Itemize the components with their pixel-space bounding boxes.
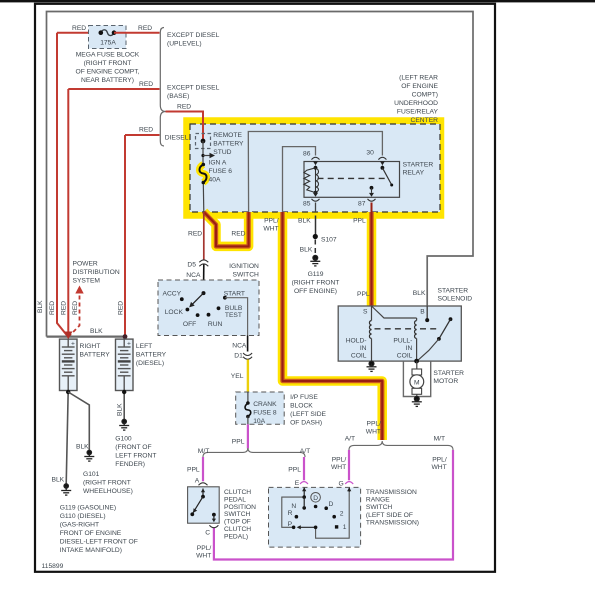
wire PPL crank fuse to brace (247, 424, 249, 448)
wire START to box exit (225, 298, 248, 336)
svg-text:S107: S107 (321, 236, 337, 243)
wire BLK D5 into ignition switch (203, 265, 205, 294)
svg-text:_: _ (70, 385, 75, 392)
svg-text:DIESEL: DIESEL (165, 135, 189, 142)
svg-text:(FRONT OF: (FRONT OF (115, 444, 151, 451)
relay dashed actuator line (318, 177, 387, 179)
wire internal re-entry to relay 30 (248, 132, 382, 213)
svg-text:RELAY: RELAY (403, 169, 425, 176)
relay switch (381, 166, 383, 168)
outer frame (35, 4, 495, 572)
node left battery positive (123, 334, 128, 339)
svg-text:86: 86 (303, 151, 311, 158)
svg-text:BLK: BLK (298, 218, 311, 225)
wire internal PPL/WHT feed to relay 86 (283, 147, 316, 212)
pin 87 connector (369, 193, 374, 197)
svg-text:MEGA FUSE BLOCK: MEGA FUSE BLOCK (76, 52, 140, 59)
svg-text:RED: RED (231, 231, 245, 238)
svg-text:REMOTE: REMOTE (213, 132, 242, 139)
svg-text:D5: D5 (187, 262, 196, 269)
connector clutch C (209, 525, 218, 528)
svg-text:WHT: WHT (331, 464, 346, 471)
svg-text:CENTER: CENTER (411, 117, 439, 124)
wire BLK B terminal (426, 306, 428, 320)
svg-text:M/T: M/T (198, 448, 210, 455)
svg-text:E: E (295, 480, 300, 487)
svg-text:G119: G119 (308, 271, 324, 278)
svg-text:BLK: BLK (117, 403, 124, 416)
inductor arcs (316, 169, 319, 192)
svg-text:BATTERY: BATTERY (136, 351, 167, 358)
svg-text:D: D (313, 495, 318, 502)
svg-text:SOLENOID: SOLENOID (438, 296, 473, 303)
svg-text:115899: 115899 (42, 563, 64, 570)
svg-text:PULL-: PULL- (393, 338, 412, 345)
wire BLK battery positive bus (47, 336, 126, 338)
svg-text:G: G (339, 480, 344, 487)
wire YEL D1 to crank fuse (247, 360, 249, 393)
svg-text:(GAS-RIGHT: (GAS-RIGHT (60, 522, 99, 529)
svg-text:CLUTCH: CLUTCH (224, 489, 251, 496)
svg-text:FENDER): FENDER) (115, 461, 145, 468)
svg-text:DISTRIBUTION: DISTRIBUTION (73, 269, 120, 276)
svg-text:(RIGHT FRONT: (RIGHT FRONT (292, 280, 340, 287)
svg-text:RANGE: RANGE (366, 497, 390, 504)
svg-text:(RIGHT FRONT: (RIGHT FRONT (84, 60, 132, 67)
svg-text:HOLD-: HOLD- (346, 338, 367, 345)
wire 87 stub (371, 203, 373, 213)
svg-text:(LEFT SIDE OF: (LEFT SIDE OF (366, 512, 413, 519)
ground starter motor (412, 396, 422, 406)
svg-text:IN: IN (406, 345, 413, 352)
brace grouping three feeds (160, 28, 165, 147)
ground G101 (84, 450, 94, 461)
svg-text:(DIESEL): (DIESEL) (136, 360, 164, 367)
svg-text:C: C (205, 530, 210, 537)
transmission range switch box (269, 487, 361, 547)
wire BLK right battery negative to G101 (68, 392, 89, 451)
circled D indicator (311, 493, 321, 503)
starter relay box (304, 162, 400, 198)
svg-text:BLK: BLK (76, 444, 89, 451)
svg-text:BLK: BLK (413, 290, 426, 297)
connector clutch A (199, 483, 208, 486)
wire RED dashed power-distribution arrow (68, 292, 79, 337)
node solenoid output (414, 359, 419, 364)
svg-text:_: _ (126, 385, 131, 392)
ignition switch box (158, 280, 259, 336)
svg-text:STUD: STUD (213, 149, 231, 156)
highlighted PPL/WHT wire to brace (283, 212, 383, 440)
svg-text:RED: RED (49, 301, 56, 315)
wire RED base horizontal to brace (68, 88, 159, 90)
svg-text:175A: 175A (100, 40, 116, 47)
wire BLK battery-to-solenoid frame loop (47, 12, 474, 337)
pull-in coil (416, 318, 418, 321)
pin 30 connector (378, 157, 386, 159)
svg-text:NEAR BATTERY): NEAR BATTERY) (81, 77, 134, 84)
svg-text:G119 (GASOLINE): G119 (GASOLINE) (60, 505, 116, 512)
svg-text:B: B (420, 308, 425, 315)
svg-text:SYSTEM: SYSTEM (73, 277, 101, 284)
svg-text:BLK: BLK (90, 328, 103, 335)
wire PPL/WHT to trans switch G (348, 450, 350, 480)
svg-text:PPL: PPL (187, 467, 200, 474)
wire PPL/WHT MT loop right side (214, 450, 453, 560)
svg-text:OF ENGINE COMPT,: OF ENGINE COMPT, (76, 69, 140, 76)
svg-text:+: + (127, 340, 131, 347)
svg-text:FUSE 8: FUSE 8 (253, 410, 277, 417)
svg-text:10A: 10A (253, 418, 265, 425)
svg-text:UNDERHOOD: UNDERHOOD (394, 100, 438, 107)
svg-text:STARTER: STARTER (433, 370, 464, 377)
wire 85 to below box (315, 203, 317, 213)
svg-text:POSITION: POSITION (224, 504, 256, 511)
wire RED diesel horizontal to brace (125, 134, 160, 136)
wire RED diesel feed vertical (124, 135, 126, 337)
wire BLK left battery negative to G100 (123, 391, 125, 420)
svg-text:BLK: BLK (300, 246, 313, 253)
wire RED mega fuse output to brace (114, 32, 160, 34)
svg-text:PPL/: PPL/ (367, 421, 382, 428)
svg-text:G110 (DIESEL): G110 (DIESEL) (60, 513, 106, 520)
svg-text:87: 87 (358, 200, 366, 207)
svg-text:WHT: WHT (366, 429, 381, 436)
svg-text:A/T: A/T (300, 448, 310, 455)
svg-text:IGN A: IGN A (209, 159, 227, 166)
wire stud to fuse with branch arrow (202, 141, 204, 164)
wire PPL to trans switch E (303, 457, 305, 480)
svg-text:CRANK: CRANK (253, 401, 277, 408)
svg-text:IN: IN (360, 345, 367, 352)
svg-text:OFF: OFF (183, 321, 196, 328)
svg-text:RED: RED (188, 231, 202, 238)
solenoid S internal split (372, 306, 417, 318)
node S107 (313, 234, 318, 239)
wire RED top horizontal to mega fuse (57, 32, 101, 34)
wire PPL to clutch switch A (202, 457, 204, 481)
wire BLK dashed to ground (314, 240, 316, 256)
svg-text:1: 1 (343, 524, 347, 531)
remote battery stud (196, 134, 211, 149)
fuse IGN A FUSE 6 40A highlighted (199, 165, 206, 183)
connector D1 (243, 353, 252, 356)
relay coil with parallel resistor (315, 166, 317, 194)
svg-text:OF DASH): OF DASH) (290, 420, 322, 427)
svg-text:IGNITION: IGNITION (229, 263, 259, 270)
svg-text:30: 30 (366, 150, 374, 157)
IP fuse block box (236, 392, 285, 424)
svg-text:PEDAL: PEDAL (224, 496, 246, 503)
svg-text:SWITCH: SWITCH (224, 511, 251, 518)
svg-text:DIESEL-LEFT FRONT OF: DIESEL-LEFT FRONT OF (60, 539, 138, 546)
svg-text:WHT: WHT (196, 552, 211, 559)
wire RED thin to ignition switch D5 (203, 212, 205, 260)
connector trans E (300, 482, 308, 484)
svg-text:(LEFT SIDE: (LEFT SIDE (290, 411, 326, 418)
svg-text:RED: RED (118, 301, 125, 315)
brace M/T A/T lower left (203, 448, 305, 457)
svg-text:EXCEPT DIESEL: EXCEPT DIESEL (167, 32, 220, 39)
svg-text:PPL: PPL (288, 466, 301, 473)
svg-text:RED: RED (138, 25, 152, 32)
svg-text:PPL/: PPL/ (197, 545, 212, 552)
svg-text:I/P FUSE: I/P FUSE (290, 394, 318, 401)
wire RED into remote battery stud (202, 112, 204, 140)
svg-text:(LEFT REAR: (LEFT REAR (399, 74, 438, 81)
wire RED mega fuse feed vertical (57, 33, 68, 337)
svg-text:WHT: WHT (431, 464, 446, 471)
svg-text:+: + (71, 340, 75, 347)
starter motor enclosure (403, 361, 430, 396)
trans switch contacts (302, 495, 306, 499)
svg-text:RIGHT: RIGHT (80, 343, 101, 350)
svg-text:D1: D1 (234, 352, 243, 359)
wire BLK 85 to S107 (315, 216, 317, 236)
svg-text:SWITCH: SWITCH (366, 504, 393, 511)
svg-text:WHEELHOUSE): WHEELHOUSE) (83, 488, 133, 495)
svg-text:LOCK: LOCK (165, 309, 184, 316)
svg-text:S: S (363, 308, 368, 315)
svg-text:R: R (288, 510, 293, 517)
svg-text:STARTER: STARTER (403, 161, 434, 168)
svg-text:INTAKE MANIFOLD): INTAKE MANIFOLD) (60, 547, 122, 554)
svg-text:PEDAL): PEDAL) (224, 533, 248, 540)
solenoid switch arm (449, 317, 453, 321)
connector trans G (345, 482, 353, 484)
ground G100 (119, 419, 129, 430)
trans switch internal frame (282, 497, 304, 527)
svg-text:RED: RED (139, 81, 153, 88)
svg-text:M/T: M/T (434, 436, 446, 443)
svg-text:EXCEPT DIESEL: EXCEPT DIESEL (167, 85, 220, 92)
svg-text:FUSE/RELAY: FUSE/RELAY (397, 108, 439, 115)
svg-text:COIL: COIL (397, 353, 413, 360)
connector D5 (199, 260, 208, 262)
fuse 175A element (101, 30, 114, 36)
svg-text:RED: RED (139, 127, 153, 134)
wire RED brace output to remote battery stud (166, 112, 204, 140)
trans switch wiper (299, 526, 316, 528)
starter solenoid box (338, 306, 461, 361)
hold-in coil (371, 306, 373, 321)
svg-text:BULB: BULB (225, 305, 243, 312)
node right battery positive (64, 332, 72, 340)
clutch pedal position switch box (188, 487, 220, 523)
fuse CRANK FUSE 8 10A (247, 392, 249, 403)
svg-text:COIL: COIL (351, 353, 367, 360)
svg-text:RUN: RUN (208, 321, 223, 328)
wire RED base feed vertical (67, 89, 69, 337)
svg-text:RED: RED (72, 25, 86, 32)
right battery (60, 339, 78, 390)
clutch switch internals (202, 489, 204, 497)
svg-text:BATTERY: BATTERY (213, 141, 244, 148)
svg-text:BATTERY: BATTERY (80, 351, 111, 358)
svg-text:WHT: WHT (263, 226, 278, 233)
starter motor (416, 361, 418, 369)
underhood fuse/relay center highlight (187, 121, 441, 215)
svg-text:A/T: A/T (345, 436, 355, 443)
svg-text:NCA: NCA (186, 272, 201, 279)
svg-text:STARTER: STARTER (438, 288, 469, 295)
svg-text:(BASE): (BASE) (167, 93, 189, 100)
svg-text:MOTOR: MOTOR (433, 378, 458, 385)
ignition switch contacts (202, 291, 206, 295)
svg-text:TEST: TEST (225, 312, 242, 319)
ground G119 engine (310, 255, 320, 266)
svg-text:40A: 40A (209, 176, 221, 183)
ground G119/G110 battery (61, 484, 71, 495)
pin 85 connector (313, 193, 318, 197)
highlighted RED jog wire below fuse block (204, 212, 249, 246)
svg-text:SWITCH: SWITCH (233, 272, 260, 279)
svg-text:PPL: PPL (357, 291, 370, 298)
svg-text:P: P (288, 521, 293, 528)
svg-text:85: 85 (303, 200, 311, 207)
trans switch G arrow (348, 488, 350, 492)
svg-text:OF ENGINE: OF ENGINE (401, 83, 438, 90)
ground solenoid hold-in (367, 361, 377, 371)
svg-text:BLK: BLK (37, 300, 44, 313)
svg-text:2: 2 (340, 510, 344, 517)
svg-text:BLOCK: BLOCK (290, 403, 313, 410)
svg-text:G100: G100 (115, 436, 132, 443)
svg-text:G101: G101 (83, 471, 100, 478)
svg-text:PPL: PPL (232, 439, 245, 446)
svg-text:BLK: BLK (52, 477, 65, 484)
svg-text:D: D (329, 501, 334, 508)
svg-text:FUSE 6: FUSE 6 (209, 168, 233, 175)
top edge line (0, 0, 595, 2)
label (LEFT REAR OF ENGINE COMPT) UNDERHOOD FUSE/RELAY CENTER (394, 74, 438, 124)
trans switch E arrow (303, 488, 305, 497)
mega fuse block 175A (89, 26, 127, 49)
wire BLK box to D1 (247, 336, 249, 352)
svg-text:(RIGHT FRONT: (RIGHT FRONT (83, 480, 131, 487)
wire BLK right battery negative to G119 (66, 391, 68, 485)
svg-text:PPL/: PPL/ (264, 218, 279, 225)
svg-text:PPL: PPL (353, 218, 366, 225)
svg-text:M: M (414, 380, 420, 387)
resistor (zigzag) (304, 168, 316, 193)
svg-text:(TOP OF: (TOP OF (224, 519, 251, 526)
svg-text:ACCY: ACCY (163, 290, 182, 297)
svg-text:TRANSMISSION): TRANSMISSION) (366, 520, 419, 527)
trans switch G route (316, 492, 350, 538)
brace A/T M/T lower right (349, 441, 453, 450)
svg-text:PPL/: PPL/ (332, 457, 347, 464)
svg-text:COMPT): COMPT) (412, 91, 438, 98)
svg-text:LEFT: LEFT (136, 343, 152, 350)
solenoid dashed actuator line (375, 328, 414, 330)
svg-text:NCA: NCA (232, 342, 247, 349)
svg-text:START: START (224, 290, 245, 297)
svg-text:RED: RED (72, 301, 79, 315)
svg-text:RED: RED (177, 103, 191, 110)
svg-text:OFF ENGINE): OFF ENGINE) (294, 288, 337, 295)
svg-text:A: A (195, 477, 200, 484)
pin 86 connector (312, 157, 320, 159)
svg-text:(UPLEVEL): (UPLEVEL) (167, 40, 202, 47)
svg-text:N: N (291, 503, 296, 510)
svg-text:POWER: POWER (73, 260, 98, 267)
svg-text:PPL/: PPL/ (432, 457, 447, 464)
highlighted PPL wire relay 87 to solenoid S (367, 212, 377, 306)
svg-text:YEL: YEL (231, 373, 244, 380)
svg-text:TRANSMISSION: TRANSMISSION (366, 489, 417, 496)
svg-text:RED: RED (61, 301, 68, 315)
left battery (116, 339, 134, 390)
svg-text:LEFT FRONT: LEFT FRONT (115, 453, 156, 460)
svg-text:CLUTCH: CLUTCH (224, 526, 251, 533)
svg-text:FRONT OF ENGINE: FRONT OF ENGINE (60, 530, 122, 537)
